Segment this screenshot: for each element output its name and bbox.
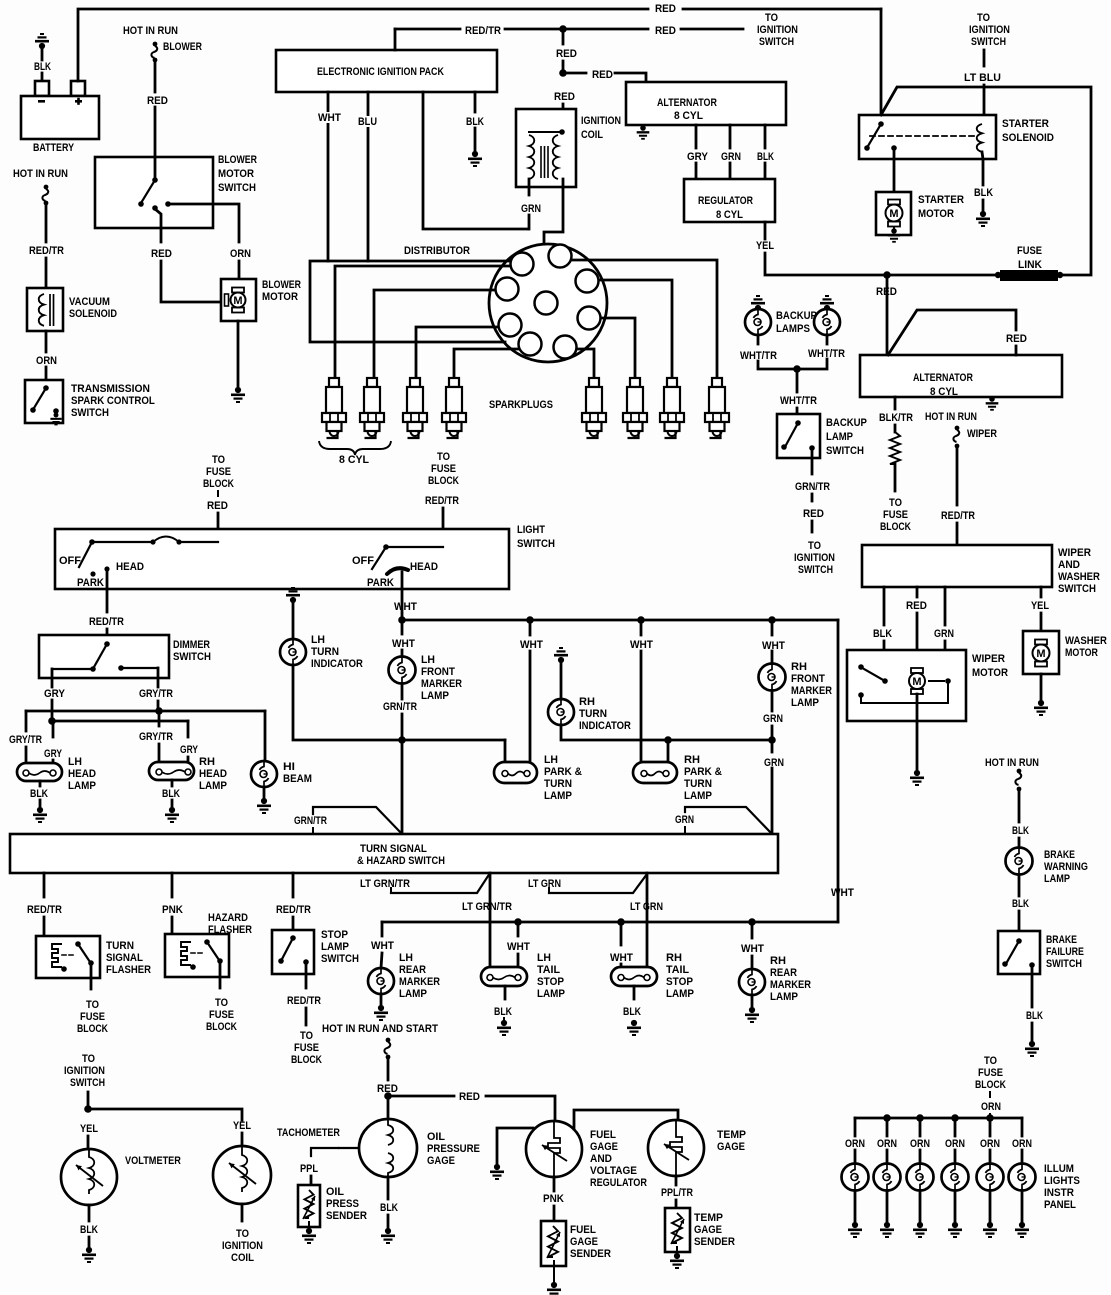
- wire resistor to fuse block: [894, 464, 897, 491]
- svg-text:8 CYL: 8 CYL: [930, 387, 959, 399]
- wire BLK/TR alternator 2 lead: [894, 397, 897, 409]
- starter motor M symbol: [886, 200, 903, 227]
- node wiper motor right: [945, 678, 951, 684]
- wire RED branch to fuel gauge right seg: [486, 1096, 555, 1121]
- wire panel lamp 4 ground lead: [954, 1191, 957, 1221]
- wire RED/TR feed corner into pack: [394, 29, 397, 50]
- svg-text:GRY/TR: GRY/TR: [9, 734, 42, 746]
- wire LH turn indicator to park lamp: [293, 665, 505, 740]
- svg-text:LT GRN: LT GRN: [630, 901, 663, 913]
- svg-text:LH: LH: [537, 952, 551, 964]
- temp sender resistive element: [672, 1213, 682, 1243]
- wire BLK solenoid ground lower: [982, 200, 985, 210]
- wire GRY/TR corner to LH headlamp: [25, 711, 28, 731]
- node GRN junction: [768, 736, 776, 744]
- svg-text:SENDER: SENDER: [326, 1211, 367, 1223]
- node ORN bus at x920: [916, 1114, 924, 1122]
- svg-text:WHT: WHT: [318, 112, 342, 124]
- svg-text:OFF: OFF: [59, 555, 81, 567]
- svg-text:BLOWER: BLOWER: [262, 279, 301, 291]
- wiper motor brush link: [929, 680, 944, 682]
- svg-text:RED: RED: [906, 601, 927, 613]
- light switch breaker hump: [153, 537, 179, 543]
- svg-text:WHT: WHT: [610, 952, 634, 964]
- svg-text:LIGHT: LIGHT: [517, 524, 546, 536]
- svg-text:GAGE: GAGE: [717, 1141, 745, 1153]
- svg-text:REGULATOR: REGULATOR: [590, 1177, 648, 1189]
- svg-text:MOTOR: MOTOR: [262, 292, 298, 304]
- svg-text:RED: RED: [207, 501, 228, 513]
- transmission spark control switch S2 box: [25, 380, 63, 423]
- svg-text:BLU: BLU: [358, 116, 377, 128]
- starter solenoid pull-in winding: [977, 124, 982, 152]
- svg-text:BLK: BLK: [380, 1202, 399, 1214]
- svg-text:BLOCK: BLOCK: [291, 1054, 323, 1066]
- wire distributor terminal D to plug3: [416, 327, 499, 377]
- brace 8 CYL group: [319, 441, 391, 455]
- wire ORN drop to panel lamp 5: [989, 1118, 992, 1136]
- wire WHT into RH tail: [620, 964, 623, 967]
- wire WHT drop to RH tail: [620, 922, 623, 945]
- ground panel lamp 3: [913, 1222, 927, 1238]
- oil gauge internal coil: [388, 1119, 393, 1177]
- wire WHT to LH park turn lamp: [529, 620, 532, 635]
- node RH park lamp junction: [664, 736, 672, 744]
- instrument panel lamp 1: [842, 1164, 869, 1191]
- svg-text:RED/TR: RED/TR: [425, 495, 460, 507]
- blower switch contact low: [138, 201, 144, 207]
- wiper motor park contact: [882, 678, 888, 684]
- brake switch lever: [1007, 941, 1019, 962]
- svg-text:ALTERNATOR: ALTERNATOR: [657, 97, 718, 109]
- svg-text:RH: RH: [770, 955, 786, 967]
- svg-text:BLK: BLK: [466, 116, 485, 128]
- svg-text:SWITCH: SWITCH: [1046, 958, 1082, 970]
- wire WHT/TR junction to switch upper: [796, 369, 799, 392]
- wire GRN/TR LH front marker down: [401, 684, 404, 699]
- svg-text:PPL/TR: PPL/TR: [661, 1187, 694, 1199]
- wire RED into ignition coil: [562, 104, 565, 132]
- wire panel lamp 5 ground lead: [989, 1191, 992, 1221]
- wire GRY into RH headlamp: [187, 757, 190, 762]
- wiper motor contact upper: [858, 664, 864, 670]
- wire ORN solenoid to trans switch upper: [45, 331, 48, 352]
- ground alternator 1: [637, 125, 650, 139]
- distributor cap terminal 4: [578, 307, 601, 330]
- wire RED feed to ignition switch: [681, 28, 743, 31]
- svg-text:COIL: COIL: [581, 129, 603, 141]
- svg-text:GRY/TR: GRY/TR: [139, 731, 174, 743]
- wire RED gauge feed upper: [387, 1059, 390, 1080]
- wire RED alternator 2 output loop: [888, 310, 1016, 355]
- svg-text:STARTER: STARTER: [918, 195, 964, 207]
- vacuum solenoid L1 box: [27, 288, 63, 331]
- svg-text:TURN: TURN: [311, 646, 339, 659]
- svg-text:STOP: STOP: [666, 976, 693, 989]
- wire coil HT lead to distributor cap: [544, 179, 563, 292]
- svg-text:ORN: ORN: [1012, 1138, 1032, 1150]
- light switch internal feed line: [92, 541, 153, 543]
- starter solenoid motor contact: [891, 145, 897, 151]
- wire BLU ignition pack to distributor: [367, 92, 370, 261]
- wire RED/TR to turn signal flasher upper: [43, 873, 46, 897]
- svg-text:RH: RH: [684, 754, 700, 766]
- svg-text:LH: LH: [68, 756, 82, 768]
- svg-text:WHT: WHT: [762, 640, 786, 652]
- fuel gauge internal element: [548, 1121, 560, 1177]
- blower switch lever: [141, 180, 155, 203]
- wire GRY to LH headlamp upper: [52, 721, 55, 737]
- wire YEL washer feed: [1040, 587, 1043, 597]
- wiper motor internal link: [861, 683, 948, 703]
- wire RED/TR wiper feed lower: [956, 523, 959, 545]
- svg-text:TO: TO: [437, 451, 450, 463]
- wire ORN drop to panel lamp 3: [919, 1118, 922, 1136]
- ground for battery negative: [35, 33, 49, 49]
- wiper motor lever: [864, 669, 885, 681]
- turn signal flasher lever: [78, 944, 90, 962]
- ground trans switch internal: [50, 413, 61, 426]
- ground RH turn indicator: [554, 647, 568, 663]
- stop lamp switch S6 box: [272, 930, 314, 974]
- node WHT bus at light switch: [398, 616, 406, 624]
- node voltmeter feed junction: [84, 1105, 92, 1113]
- wire RED/TR into dimmer switch: [106, 629, 109, 644]
- svg-text:GRN: GRN: [764, 757, 784, 769]
- starter solenoid lever: [868, 124, 881, 146]
- distributor center terminal: [535, 292, 558, 315]
- svg-text:VOLTMETER: VOLTMETER: [125, 1155, 182, 1167]
- wire distributor terminal A harness: [310, 261, 513, 342]
- wire GRN junction to turn signal switch: [771, 740, 774, 752]
- wire ORN blower switch branch: [168, 204, 239, 242]
- svg-text:BATTERY: BATTERY: [33, 142, 74, 154]
- svg-text:SIGNAL: SIGNAL: [106, 953, 144, 965]
- svg-text:LH: LH: [544, 754, 558, 766]
- label BLU pack output: [357, 116, 379, 127]
- alternator A2 box: [860, 355, 1062, 397]
- wire WHT ignition pack to distributor: [327, 92, 330, 261]
- wire temp sender to ground: [676, 1247, 678, 1252]
- svg-text:TO: TO: [212, 454, 225, 466]
- wire PNK to hazard flasher lower: [171, 917, 174, 934]
- svg-text:LAMP: LAMP: [544, 791, 572, 803]
- svg-text:IGNITION: IGNITION: [969, 24, 1010, 36]
- svg-text:HOT IN RUN: HOT IN RUN: [985, 757, 1039, 769]
- blower switch common contact: [152, 177, 158, 183]
- ground RH tail lamp: [627, 1020, 641, 1036]
- svg-text:FRONT: FRONT: [791, 674, 826, 686]
- washer motor M4 box: [1023, 631, 1059, 674]
- wire BLK voltmeter to ground: [88, 1237, 91, 1246]
- svg-text:HOT IN RUN: HOT IN RUN: [13, 168, 68, 180]
- battery plus sign: [75, 100, 82, 103]
- svg-text:8 CYL: 8 CYL: [339, 454, 369, 466]
- svg-text:MOTOR: MOTOR: [918, 209, 954, 221]
- svg-text:TURN: TURN: [106, 940, 134, 953]
- wire WHT/TR RH backup lamp: [826, 335, 829, 344]
- ground brake failure switch: [1025, 1041, 1039, 1057]
- wire GRY/TR low beam line: [26, 710, 265, 713]
- RH rear marker lamp: [739, 969, 765, 995]
- svg-text:TO: TO: [82, 1053, 95, 1065]
- blower motor M1 box: [221, 279, 256, 321]
- svg-text:DISTRIBUTOR: DISTRIBUTOR: [404, 246, 470, 258]
- wire RED/TR vacuum feed upper: [45, 205, 48, 242]
- spark plug 1: [322, 378, 346, 438]
- svg-text:BLOCK: BLOCK: [975, 1079, 1007, 1091]
- svg-text:ORN: ORN: [36, 355, 57, 367]
- svg-text:LAMP: LAMP: [770, 992, 798, 1004]
- ignition gauge arrow: [229, 1163, 256, 1184]
- ground LH rear marker: [374, 1005, 388, 1021]
- node GRN/TR junction at front marker: [398, 736, 406, 744]
- wire RED coil feed to junction: [562, 61, 565, 73]
- wire corner into LH park turn lamp: [504, 740, 507, 762]
- svg-text:RH: RH: [579, 696, 595, 708]
- wire GRY/TR into LH headlamp: [25, 747, 28, 763]
- svg-text:IGNITION: IGNITION: [64, 1065, 105, 1077]
- svg-text:8 CYL: 8 CYL: [674, 110, 703, 122]
- svg-text:FUSE: FUSE: [978, 1067, 1003, 1079]
- svg-text:WARNING: WARNING: [1044, 861, 1088, 873]
- wire PPL/TR into temp sender: [675, 1200, 678, 1208]
- wire LT BLU into starter solenoid: [983, 85, 986, 124]
- electronic ignition pack U1 box: [276, 50, 497, 92]
- wire PNK into fuel sender: [553, 1206, 556, 1221]
- wire RH rear marker ground lead: [751, 995, 754, 1006]
- label WHT pack output: [317, 112, 343, 123]
- fuel sender resistive element: [548, 1226, 558, 1257]
- ground voltmeter: [82, 1247, 96, 1263]
- svg-text:LH: LH: [421, 654, 435, 666]
- svg-text:FUSE: FUSE: [80, 1011, 105, 1023]
- svg-text:IGNITION: IGNITION: [757, 24, 798, 36]
- turn signal flasher F1 box: [36, 936, 100, 978]
- svg-text:TO: TO: [977, 12, 990, 24]
- ground oil gauge: [381, 1228, 395, 1244]
- LH tail stop lamp: [481, 967, 527, 986]
- svg-text:FRONT: FRONT: [421, 667, 456, 679]
- wire WHT light switch output lower: [401, 614, 404, 620]
- spark plug 5: [582, 378, 606, 438]
- spark plug 2: [360, 378, 384, 438]
- svg-text:SWITCH: SWITCH: [173, 651, 211, 663]
- hazard flasher dashed link: [191, 952, 205, 954]
- wire LH rear marker ground lead: [380, 994, 383, 1004]
- svg-text:FUEL: FUEL: [590, 1130, 617, 1142]
- svg-text:OIL: OIL: [427, 1131, 445, 1143]
- svg-text:WIPER: WIPER: [972, 653, 1005, 666]
- svg-text:TURN: TURN: [579, 708, 607, 721]
- svg-text:BRAKE: BRAKE: [1046, 934, 1077, 946]
- distributor cap terminal 3: [576, 270, 599, 293]
- wire GRN/TR lower: [811, 494, 814, 501]
- svg-text:MOTOR: MOTOR: [972, 668, 1008, 680]
- temp gage sender R3 box: [665, 1208, 690, 1252]
- wire WHT into RH rear marker: [751, 956, 754, 969]
- svg-text:SWITCH: SWITCH: [971, 36, 1006, 48]
- turn signal flasher top contact: [75, 941, 81, 947]
- spark plug 8: [705, 378, 729, 438]
- wire LT GRN/TR to LH tail lamp: [489, 873, 492, 967]
- dimmer common contact: [104, 641, 110, 647]
- wire RED/TR feed line left segment: [395, 28, 460, 31]
- LH backup lamp: [745, 309, 771, 335]
- svg-text:BEAM: BEAM: [283, 774, 312, 786]
- node coil positive: [559, 129, 565, 135]
- stop lamp switch contact left: [278, 958, 284, 964]
- vacuum solenoid winding: [39, 294, 44, 326]
- wire feed into blower switch: [154, 157, 157, 178]
- wire RED blower switch to motor: [155, 209, 161, 242]
- svg-text:WHT/TR: WHT/TR: [740, 350, 777, 362]
- svg-text:GRY: GRY: [180, 744, 198, 756]
- svg-text:RED: RED: [556, 49, 577, 61]
- wire starter solenoid to starter motor: [893, 148, 896, 192]
- node RED junction on fuse link line: [883, 271, 891, 279]
- light switch right common contact: [383, 544, 389, 550]
- RH backup lamp: [814, 309, 840, 335]
- leader GRN bracket: [685, 807, 771, 833]
- svg-text:HEAD: HEAD: [199, 769, 227, 781]
- light switch right lever: [372, 547, 386, 569]
- distributor cap outline: [489, 244, 607, 362]
- svg-text:WIPER: WIPER: [1058, 547, 1091, 560]
- svg-text:SPARKPLUGS: SPARKPLUGS: [489, 399, 553, 411]
- dimmer switch S4 box: [39, 635, 169, 678]
- svg-text:LH: LH: [399, 952, 413, 964]
- wire pack output to coil GRN node: [423, 92, 528, 229]
- ground LH headlamp: [33, 807, 47, 823]
- fuse link FL1: [1000, 270, 1058, 281]
- wire GRY corner to RH headlamp: [187, 721, 190, 737]
- fuel gage sender R2 box: [541, 1221, 566, 1266]
- wire fuel sender to ground: [553, 1261, 555, 1281]
- svg-text:TAIL: TAIL: [666, 964, 689, 976]
- svg-text:WIPER: WIPER: [967, 428, 998, 440]
- ground alternator 2: [986, 396, 999, 410]
- node ORN bus at x990: [986, 1114, 994, 1122]
- ground RH rear marker: [745, 1007, 759, 1023]
- wire ORN to blower motor top: [238, 261, 241, 279]
- wire ORN drop to panel lamp 1: [854, 1118, 857, 1136]
- wire BLK brake feed lower: [1018, 838, 1021, 847]
- distributor cap terminal 2: [549, 245, 572, 268]
- wire RED/TR vacuum feed lower: [45, 258, 48, 288]
- svg-text:PNK: PNK: [543, 1194, 564, 1206]
- svg-text:IGNITION: IGNITION: [222, 1240, 263, 1252]
- svg-text:PRESS: PRESS: [326, 1199, 359, 1211]
- svg-text:RED: RED: [655, 26, 676, 38]
- node WHT bus LH tail: [514, 918, 522, 926]
- node RED gauge junction: [384, 1092, 392, 1100]
- svg-text:LINK: LINK: [1018, 259, 1042, 271]
- distributor cap terminal 5: [554, 336, 577, 359]
- node WHT bus at LH park lamp: [526, 616, 534, 624]
- spark plug 6: [623, 378, 647, 438]
- wire solenoid winding to ground lead: [982, 152, 983, 185]
- node WHT bus at RH front marker: [768, 616, 776, 624]
- battery B1 case: [21, 96, 99, 139]
- temp gauge internal element: [670, 1120, 682, 1176]
- svg-text:WHT: WHT: [507, 941, 531, 953]
- wire RED output into alternator 2: [1015, 346, 1018, 355]
- svg-text:PARK: PARK: [77, 578, 104, 590]
- ground panel lamp 2: [880, 1222, 894, 1238]
- svg-text:M: M: [1036, 648, 1045, 660]
- coil core lines: [540, 146, 542, 178]
- coil secondary winding: [553, 135, 558, 179]
- RH tail stop lamp: [611, 967, 657, 986]
- svg-text:WHT: WHT: [630, 639, 654, 651]
- svg-text:YEL: YEL: [80, 1123, 98, 1135]
- svg-text:SWITCH: SWITCH: [517, 538, 555, 550]
- connector pigtail blower feed: [151, 42, 157, 63]
- wire RED junction into oil gauge: [387, 1096, 390, 1120]
- wire blower motor to ground: [237, 321, 240, 386]
- svg-text:M: M: [912, 676, 921, 688]
- tick below BLOCK illumination: [989, 1092, 991, 1097]
- wire RED top bus drop to solenoid: [880, 9, 883, 124]
- RH turn indicator lamp: [548, 699, 574, 725]
- light switch left lever: [79, 542, 92, 567]
- svg-text:ORN: ORN: [910, 1138, 930, 1150]
- ground RH backup lamp: [820, 295, 834, 311]
- svg-text:LAMP: LAMP: [68, 781, 96, 793]
- wire WHT drop to LH tail: [517, 922, 520, 936]
- svg-text:TO: TO: [808, 540, 821, 552]
- svg-text:SENDER: SENDER: [570, 1249, 611, 1261]
- svg-text:SPARK CONTROL: SPARK CONTROL: [71, 396, 155, 408]
- svg-text:INDICATOR: INDICATOR: [311, 658, 363, 670]
- svg-text:LAMP: LAMP: [321, 942, 349, 954]
- resistor R4 fusible: [890, 432, 900, 464]
- svg-text:GRN/TR: GRN/TR: [383, 701, 417, 713]
- wire BLK LH tail to ground: [503, 1018, 505, 1020]
- ground blower motor: [231, 387, 245, 403]
- svg-text:LAMP: LAMP: [399, 989, 427, 1001]
- brake switch contact right: [1029, 962, 1035, 968]
- svg-text:YEL: YEL: [1031, 600, 1049, 612]
- svg-text:SWITCH: SWITCH: [71, 407, 109, 419]
- ground LH backup lamp: [751, 295, 765, 311]
- stop lamp switch contact right: [303, 959, 309, 965]
- wire WHT rear lamp bus: [382, 921, 838, 924]
- svg-text:LAMP: LAMP: [666, 989, 694, 1001]
- wire fuel gauge top link to temp gauge: [574, 1110, 678, 1129]
- distributor cap terminal 1: [511, 253, 534, 276]
- svg-text:DIMMER: DIMMER: [173, 639, 211, 651]
- wire RED gauge feed to junction: [387, 1095, 389, 1096]
- svg-text:ORN: ORN: [877, 1138, 897, 1150]
- svg-text:HEAD: HEAD: [68, 769, 96, 781]
- ground temp sender: [670, 1253, 684, 1269]
- brake warning lamp: [1006, 848, 1033, 875]
- svg-text:WHT: WHT: [831, 887, 855, 899]
- wire BLK LH headlamp: [39, 781, 42, 786]
- turn signal flasher idle contact: [61, 966, 67, 972]
- wire WHT corner to LH rear marker: [381, 922, 384, 936]
- svg-text:GAGE: GAGE: [427, 1155, 455, 1167]
- svg-text:WHT/TR: WHT/TR: [808, 348, 845, 360]
- HI beam indicator lamp: [251, 761, 277, 787]
- oil press sender R1 box: [298, 1185, 320, 1227]
- wire BLK pack ground lead: [474, 92, 477, 112]
- svg-text:LT GRN/TR: LT GRN/TR: [462, 901, 512, 913]
- wire panel lamp 1 ground lead: [854, 1191, 857, 1221]
- brake switch contact left: [1002, 961, 1008, 967]
